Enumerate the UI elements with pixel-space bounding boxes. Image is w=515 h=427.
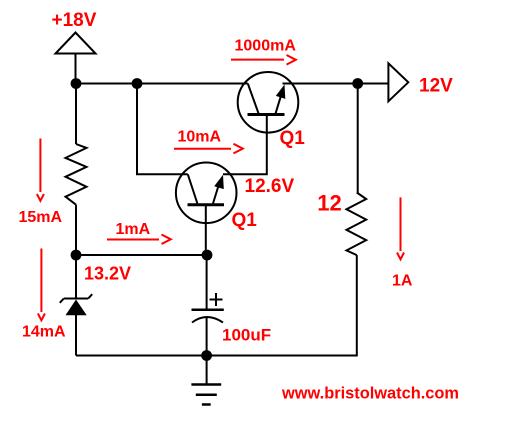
svg-text:1000mA: 1000mA — [235, 38, 297, 55]
wire top rail left segment — [76, 83, 248, 85]
annotation arrow 15mA — [37, 139, 44, 201]
zener diode — [60, 255, 92, 356]
annotation arrow 1mA — [107, 235, 171, 245]
annotation arrow 1000mA — [231, 55, 296, 65]
transistor Q1 driver — [176, 163, 237, 224]
output terminal triangle 12V — [388, 63, 408, 101]
annotation arrow 14mA — [38, 249, 45, 321]
svg-text:+18V: +18V — [52, 10, 97, 31]
svg-text:10mA: 10mA — [178, 129, 222, 146]
svg-text:12.6V: 12.6V — [245, 176, 295, 197]
annotation arrow 10mA — [174, 144, 243, 154]
wire driver collector branch — [137, 84, 188, 175]
wire driver base lead — [205, 205, 207, 255]
capacitor C 100uF — [192, 255, 224, 356]
wire middle horizontal node — [76, 254, 207, 256]
wire top rail right segment — [283, 83, 389, 85]
node junction rail to driver — [132, 78, 143, 89]
svg-text:12V: 12V — [419, 76, 453, 97]
svg-text:100uF: 100uF — [222, 326, 271, 345]
wire driver emitter to pass base — [223, 115, 267, 175]
node junction capacitor top — [202, 250, 213, 261]
svg-text:13.2V: 13.2V — [84, 264, 131, 284]
wire power stem — [75, 54, 77, 84]
svg-text:1A: 1A — [392, 273, 413, 290]
node junction +18V rail left — [71, 78, 82, 89]
svg-text:15mA: 15mA — [19, 209, 63, 226]
svg-text:1mA: 1mA — [116, 221, 151, 238]
resistor load 12 — [347, 193, 367, 256]
power symbol +18V triangle — [56, 33, 96, 54]
svg-text:Q1: Q1 — [232, 210, 258, 231]
svg-text:14mA: 14mA — [22, 324, 66, 341]
wire bottom rail — [76, 355, 358, 357]
annotation arrow 1A — [397, 197, 404, 259]
wire load resistor to rail — [356, 255, 358, 355]
node junction rail to load — [352, 78, 363, 89]
wire left vertical to resistor — [75, 84, 77, 145]
transistor Q1 pass — [238, 72, 299, 133]
wire resistor to node — [75, 205, 77, 255]
svg-text:www.bristolwatch.com: www.bristolwatch.com — [281, 385, 459, 403]
node junction zener top — [71, 250, 82, 261]
wire load branch — [357, 84, 359, 193]
node junction ground — [201, 350, 212, 361]
ground — [191, 356, 221, 405]
svg-text:12: 12 — [317, 191, 341, 216]
resistor input filter — [66, 144, 87, 205]
svg-text:Q1: Q1 — [280, 128, 306, 149]
